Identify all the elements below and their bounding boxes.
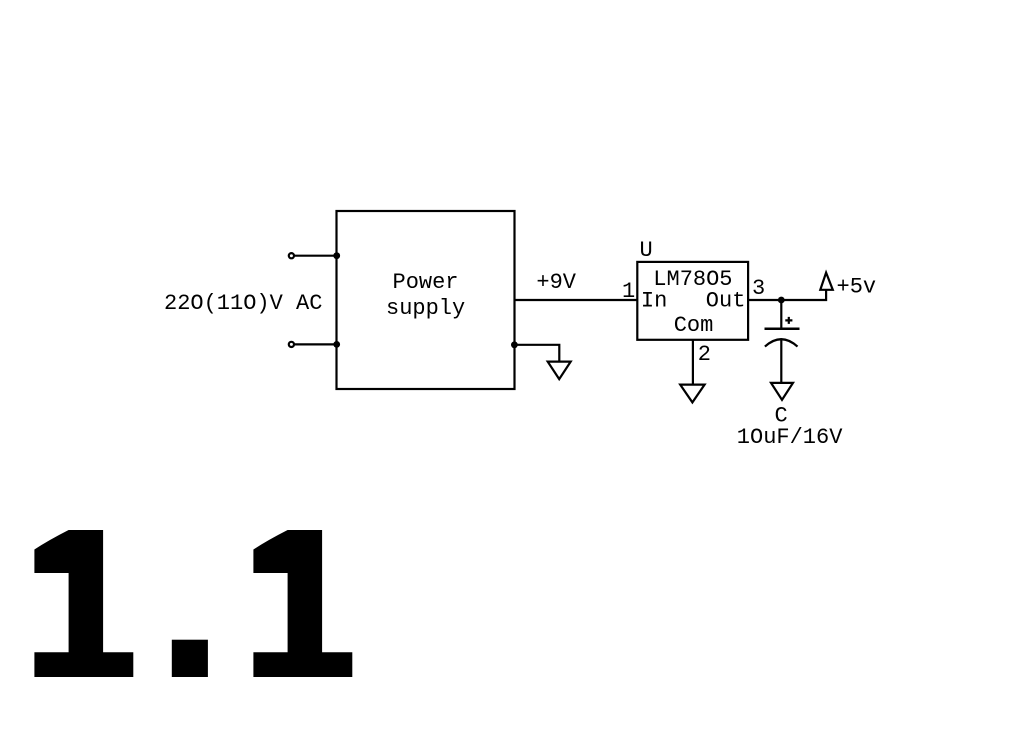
ground G3 (capacitor) (771, 383, 793, 400)
svg-text:Out: Out (706, 289, 746, 314)
svg-text:3: 3 (752, 276, 765, 301)
wire pin2 to ground (692, 340, 694, 385)
svg-text:1OuF/16V: 1OuF/16V (737, 425, 843, 450)
junction dot bottom-right (511, 341, 518, 348)
power supply block PS1 (337, 211, 515, 389)
wire U1 Out to +5v arrow (748, 290, 826, 300)
wire T1 to box (295, 255, 337, 257)
figure number 1.1 (34, 530, 352, 677)
ground G1 (power supply) (548, 362, 571, 380)
svg-text:2: 2 (698, 342, 711, 367)
svg-text:+5v: +5v (837, 275, 877, 300)
svg-text:supply: supply (386, 296, 465, 321)
wire node to capacitor C1 (780, 300, 782, 329)
svg-text:U: U (640, 238, 653, 263)
junction dot top-left (333, 252, 340, 259)
svg-text:1: 1 (622, 279, 635, 304)
terminal T1 (AC input top) (289, 253, 294, 258)
svg-text:22O(11O)V AC: 22O(11O)V AC (164, 291, 322, 316)
junction dot bottom-left (333, 341, 340, 348)
power arrow +5v (820, 273, 833, 290)
wire capacitor to ground (780, 339, 782, 383)
svg-text:+9V: +9V (536, 270, 576, 295)
wire box bottom-right to ground (515, 345, 560, 362)
junction dot node +5v (778, 297, 785, 304)
ground G2 (U1 Com) (680, 385, 704, 403)
svg-text:Com: Com (674, 313, 714, 338)
regulator U1 LM7805 (637, 262, 748, 340)
capacitor C1 positive plate (765, 328, 800, 331)
capacitor C1 negative plate (arc) (765, 339, 798, 346)
svg-text:Power: Power (393, 270, 459, 295)
terminal T2 (AC input bottom) (289, 342, 294, 347)
wire +9V (box to U1 pin1) (515, 299, 638, 301)
wire T2 to box (295, 343, 337, 345)
svg-text:In: In (641, 289, 667, 314)
polarity plus sign (785, 317, 792, 324)
